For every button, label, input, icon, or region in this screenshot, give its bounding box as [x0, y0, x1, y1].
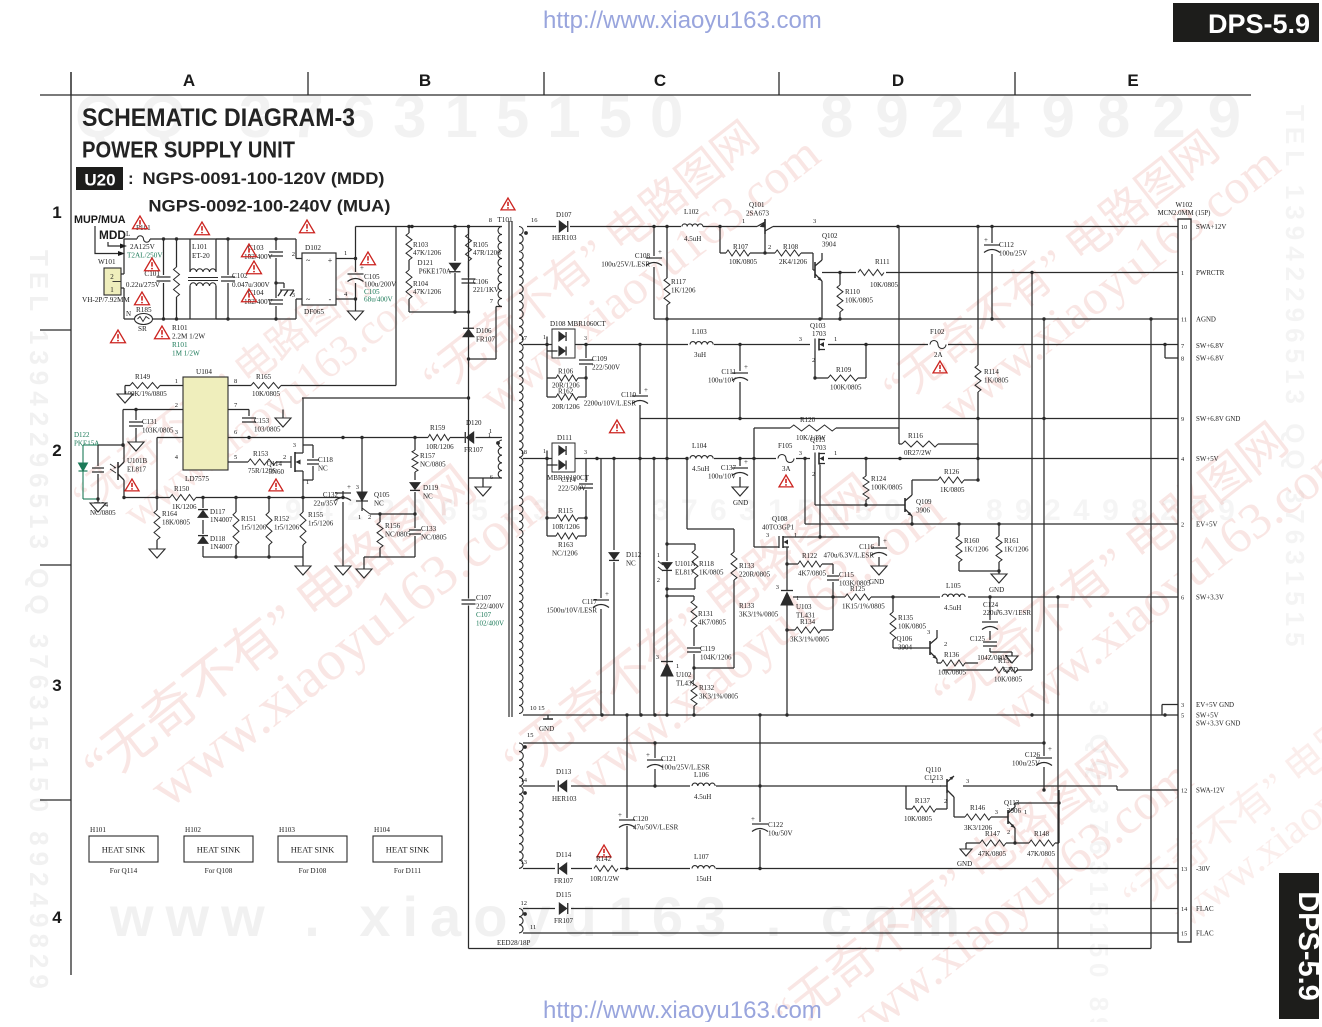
- svg-text:9: 9: [1181, 416, 1184, 423]
- svg-text:SW+6.8V: SW+6.8V: [1196, 343, 1224, 350]
- svg-text:R165: R165: [256, 373, 272, 381]
- svg-text:R107: R107: [733, 243, 749, 251]
- svg-text:2: 2: [175, 402, 178, 409]
- resistor R132: [693, 668, 695, 680]
- svg-text:10R/1206: 10R/1206: [552, 523, 580, 531]
- diode D115: [555, 902, 571, 914]
- grid row ticks: [40, 329, 71, 331]
- wire Q110 out: [954, 776, 958, 780]
- svg-text:C119: C119: [700, 645, 715, 653]
- svg-text:10R/1/2W: 10R/1/2W: [590, 875, 620, 883]
- svg-text:+: +: [996, 607, 1000, 615]
- svg-text:AGND: AGND: [1196, 317, 1216, 324]
- resistor R118: [667, 543, 695, 545]
- svg-text:FR107: FR107: [476, 336, 496, 344]
- svg-text:C109: C109: [592, 355, 608, 363]
- svg-text:FR107: FR107: [464, 446, 484, 454]
- svg-text:For D111: For D111: [394, 867, 422, 875]
- svg-text:13: 13: [1181, 866, 1187, 873]
- inductor L102: [681, 222, 703, 231]
- svg-text:TEL 13942296513 QQ 376315150 8: TEL 13942296513 QQ 376315150 89249829: [24, 250, 54, 995]
- wire Q114 drain row: [302, 397, 469, 399]
- svg-text:1K15/1%/0805: 1K15/1%/0805: [842, 603, 885, 611]
- fuse F101: [124, 238, 137, 240]
- svg-text:1: 1: [543, 449, 546, 455]
- wire Q106 collector: [936, 630, 938, 638]
- svg-text:L: L: [126, 230, 130, 238]
- resistor R142: [592, 863, 620, 873]
- svg-text:1: 1: [834, 450, 837, 457]
- wire PWRCTR rail: [822, 272, 1178, 274]
- wire Q108 drain row: [789, 536, 879, 538]
- resistor R152: [268, 498, 270, 513]
- wire Q110 collector row: [954, 775, 960, 777]
- svg-text:3: 3: [175, 429, 178, 436]
- svg-text:EED28/18P: EED28/18P: [497, 939, 531, 947]
- svg-text:5: 5: [234, 454, 237, 461]
- svg-text:EL817: EL817: [675, 569, 695, 577]
- svg-text:H104: H104: [374, 826, 390, 834]
- svg-text:C111: C111: [721, 368, 736, 376]
- svg-text:1: 1: [676, 663, 679, 670]
- svg-text:MUP/MUA: MUP/MUA: [74, 214, 126, 226]
- capacitor C102: [227, 239, 229, 275]
- capacitor C124: [989, 597, 991, 620]
- svg-text:R101: R101: [172, 341, 188, 349]
- svg-text:1: 1: [742, 218, 745, 225]
- wire U102 col: [666, 589, 668, 596]
- wire R165 riser: [395, 227, 397, 386]
- resistor R116: [899, 443, 902, 445]
- svg-text:W102: W102: [1175, 201, 1193, 209]
- svg-text:Q106: Q106: [896, 635, 912, 643]
- svg-text:http://www.xiaoyu163.com: http://www.xiaoyu163.com: [543, 7, 822, 34]
- svg-text:3906: 3906: [1007, 807, 1022, 815]
- wire bridge pin3: [295, 299, 297, 319]
- resistor R103: [408, 227, 410, 234]
- svg-text:EL817: EL817: [127, 466, 147, 474]
- wire x1058 col2: [1057, 597, 1059, 949]
- svg-text:4.5uH: 4.5uH: [694, 793, 711, 801]
- svg-text:3: 3: [995, 809, 998, 816]
- svg-text:MDD: MDD: [99, 228, 126, 242]
- wire Q115 gate down: [814, 465, 816, 506]
- svg-text:14: 14: [1181, 906, 1188, 913]
- svg-text:104Z/0805: 104Z/0805: [977, 654, 1008, 662]
- capacitor C103: [275, 239, 277, 250]
- svg-text:SW+5V: SW+5V: [1196, 713, 1219, 720]
- svg-text:D108 MBR1060CT: D108 MBR1060CT: [550, 320, 607, 328]
- svg-text:104K/1206: 104K/1206: [700, 654, 732, 662]
- svg-text:3906: 3906: [916, 507, 931, 515]
- svg-text:C131: C131: [142, 418, 158, 426]
- capacitor C118: [303, 452, 313, 454]
- wire pin7 gnd jog: [249, 409, 283, 411]
- svg-text:12: 12: [521, 900, 528, 907]
- capacitor C133: [414, 514, 416, 528]
- svg-text:R133: R133: [739, 602, 755, 610]
- svg-text:DPS-5.9: DPS-5.9: [1208, 9, 1310, 39]
- svg-text:E: E: [1127, 71, 1138, 90]
- wire R120 chain: [753, 428, 755, 459]
- capacitor C134: [97, 445, 99, 466]
- resistor R122: [787, 563, 798, 565]
- wire R150 rail: [98, 497, 183, 499]
- svg-text:2: 2: [944, 641, 947, 648]
- wire pin14 rail: [523, 785, 1117, 787]
- svg-text:NC: NC: [626, 560, 636, 568]
- capacitor C107: [460, 599, 477, 606]
- svg-text:R125: R125: [850, 585, 866, 593]
- svg-text:R104: R104: [413, 280, 429, 288]
- svg-text:C122: C122: [768, 821, 784, 829]
- svg-text:17: 17: [521, 335, 528, 342]
- warning below F102: [933, 361, 947, 373]
- svg-text:11: 11: [530, 924, 536, 931]
- svg-text:10K/0805: 10K/0805: [994, 676, 1023, 684]
- wire R138 row: [937, 669, 986, 671]
- wire pin6 rail: [228, 437, 470, 439]
- svg-text:SCHEMATIC DIAGRAM-3: SCHEMATIC DIAGRAM-3: [82, 104, 355, 132]
- svg-text:C117: C117: [582, 598, 597, 606]
- grid header line: [40, 94, 1251, 96]
- warning triangles: [133, 216, 148, 229]
- svg-text:R146: R146: [970, 804, 986, 812]
- svg-text:C133: C133: [421, 525, 437, 533]
- svg-text:8: 8: [1181, 356, 1184, 363]
- svg-text:R126: R126: [944, 468, 960, 476]
- svg-text:12: 12: [1181, 788, 1187, 795]
- svg-text:R120: R120: [800, 416, 816, 424]
- svg-text:PWRCTR: PWRCTR: [1196, 270, 1225, 277]
- capacitor C122: [752, 823, 768, 825]
- wire N rail after choke: [216, 318, 296, 320]
- svg-text:U101B: U101B: [127, 457, 148, 465]
- resistor R124: [865, 459, 867, 477]
- svg-text:R137: R137: [915, 797, 931, 805]
- svg-text:C132: C132: [323, 491, 339, 499]
- svg-text:222/500V: 222/500V: [558, 485, 586, 493]
- svg-text:R116: R116: [908, 432, 923, 440]
- diode D121: [454, 227, 456, 262]
- svg-text:R142: R142: [596, 855, 612, 863]
- svg-text:D118: D118: [210, 535, 226, 543]
- svg-text:HEAT SINK: HEAT SINK: [102, 845, 146, 855]
- resistor R134: [787, 629, 795, 631]
- svg-text:R162: R162: [558, 388, 574, 396]
- wire N rail: [153, 318, 229, 320]
- wire R117 col lower: [666, 319, 668, 459]
- svg-text:R122: R122: [802, 552, 818, 560]
- wire Q114 source: [302, 471, 304, 498]
- svg-text:3K3/1%/0805: 3K3/1%/0805: [699, 693, 739, 701]
- capacitor C101: [163, 239, 165, 275]
- capacitor C112: [991, 227, 993, 244]
- svg-text:1: 1: [344, 250, 347, 257]
- svg-text:DPS-5.9: DPS-5.9: [1292, 891, 1322, 1001]
- svg-text:W101: W101: [98, 258, 116, 266]
- svg-text:1r5/1206: 1r5/1206: [274, 524, 300, 532]
- svg-text:10K/0805: 10K/0805: [870, 281, 899, 289]
- wire x627 col: [626, 715, 628, 818]
- svg-text:3: 3: [766, 532, 769, 539]
- capacitor C125: [983, 641, 997, 643]
- svg-text:+: +: [328, 256, 333, 265]
- thyristor Q105: [361, 438, 363, 493]
- wire pin15 flac rail: [523, 932, 1178, 934]
- svg-text:R161: R161: [1004, 537, 1020, 545]
- transistor Q106: [925, 647, 930, 649]
- svg-text:Q114: Q114: [267, 460, 283, 468]
- svg-text:R101: R101: [172, 324, 188, 332]
- wire x760 col: [759, 715, 761, 822]
- phase dot 14: [523, 791, 527, 795]
- ground R147: [965, 843, 967, 849]
- wire C108 col lower: [653, 319, 655, 715]
- wire x978 col: [977, 227, 979, 366]
- wire R107 left: [719, 227, 721, 254]
- svg-text:R159: R159: [430, 424, 446, 432]
- svg-text:10K/0805: 10K/0805: [845, 297, 874, 305]
- svg-text:FR107: FR107: [554, 917, 574, 925]
- svg-text:NGPS-0092-100-240V (MUA): NGPS-0092-100-240V (MUA): [148, 197, 390, 216]
- warning U101B: [125, 479, 139, 491]
- wire Q109 collector to R126: [911, 480, 913, 495]
- wire W101 pin2 to L line: [121, 273, 124, 275]
- svg-text:2SA673: 2SA673: [746, 210, 769, 218]
- svg-text:2: 2: [292, 251, 295, 258]
- transformer T101 secondary winding 17-18: [519, 344, 523, 458]
- wire Q113 collector: [1014, 803, 1016, 807]
- svg-text:NGPS-0091-100-120V (MDD): NGPS-0091-100-120V (MDD): [143, 169, 385, 188]
- inductor L106: [690, 781, 716, 791]
- svg-text:R131: R131: [698, 610, 714, 618]
- svg-text:FLAC: FLAC: [1196, 931, 1214, 938]
- svg-text:100u/10V: 100u/10V: [708, 473, 736, 481]
- svg-text:D106: D106: [476, 327, 492, 335]
- svg-text:R109: R109: [836, 366, 852, 374]
- capacitor C115: [832, 564, 834, 574]
- svg-text:+: +: [347, 483, 351, 491]
- svg-text:10K/0805: 10K/0805: [252, 390, 281, 398]
- svg-text:14: 14: [521, 777, 528, 784]
- svg-text:3A: 3A: [782, 465, 791, 473]
- wire L rail: [164, 238, 229, 240]
- wire Q105 gnd: [361, 510, 363, 512]
- wire EV5V rail: [804, 459, 806, 525]
- heat sink H104: [373, 836, 442, 862]
- svg-text:220R/0805: 220R/0805: [739, 571, 771, 579]
- svg-text:D121: D121: [417, 259, 433, 267]
- svg-text:+: +: [646, 751, 650, 759]
- svg-text:GND: GND: [1003, 666, 1018, 674]
- diode D111 package: [552, 443, 575, 472]
- svg-text:3: 3: [927, 629, 930, 636]
- capacitor C108: [653, 227, 655, 257]
- svg-text:1: 1: [657, 552, 660, 559]
- svg-text:4: 4: [52, 908, 62, 927]
- wire U102 anode: [666, 676, 668, 715]
- wire pin14 flac rail: [523, 908, 1178, 910]
- svg-text:R155: R155: [308, 511, 324, 519]
- svg-text:2: 2: [368, 514, 371, 521]
- svg-text:3: 3: [656, 654, 659, 661]
- capacitor C137: [739, 459, 741, 467]
- resistor R138: [960, 669, 988, 671]
- svg-text:10R/1206: 10R/1206: [426, 443, 454, 451]
- svg-text:NC: NC: [318, 465, 328, 473]
- wire Q102 collector: [821, 253, 823, 260]
- svg-text:40TO3GP1: 40TO3GP1: [762, 524, 795, 532]
- wire rail SW6.8V: [523, 344, 1178, 346]
- resistor R151: [235, 498, 237, 513]
- ground cluster: [363, 557, 365, 569]
- svg-text:4K7/0805: 4K7/0805: [798, 570, 827, 578]
- svg-text:H102: H102: [185, 826, 201, 834]
- resistor R108: [775, 250, 801, 256]
- resistor R137: [905, 786, 907, 809]
- resistor R107: [726, 250, 750, 256]
- svg-text:1r5/1206: 1r5/1206: [241, 524, 267, 532]
- transistor Q110: [938, 785, 947, 787]
- svg-text:1K/1206: 1K/1206: [964, 546, 989, 554]
- transistor Q113: [1005, 816, 1008, 818]
- svg-text:NC/0805: NC/0805: [385, 531, 411, 539]
- svg-text:3uH: 3uH: [694, 351, 706, 359]
- resistor R160: [958, 524, 960, 536]
- svg-text:DF065: DF065: [304, 308, 324, 316]
- svg-text:68u/400V: 68u/400V: [364, 296, 394, 304]
- resistor R135: [892, 597, 894, 612]
- svg-text:2A: 2A: [934, 351, 943, 359]
- svg-text:Q101: Q101: [749, 201, 765, 209]
- svg-text:10 15: 10 15: [530, 705, 545, 712]
- svg-text:C: C: [654, 71, 666, 90]
- svg-text:103K/0805: 103K/0805: [142, 427, 174, 435]
- svg-text:2A125V: 2A125V: [130, 243, 156, 251]
- svg-text:MCN2.0MM (15P): MCN2.0MM (15P): [1158, 210, 1211, 217]
- svg-text:FLAC: FLAC: [1196, 906, 1214, 913]
- svg-text:HER103: HER103: [552, 234, 577, 242]
- resistor R147: [966, 842, 980, 844]
- svg-text:NC/0805: NC/0805: [421, 534, 447, 542]
- svg-text:U103: U103: [796, 603, 812, 611]
- wire R156 C133 bottom: [364, 556, 415, 558]
- wire left box edge: [468, 227, 470, 949]
- svg-text:0.22u/275V: 0.22u/275V: [126, 281, 161, 289]
- svg-text:3: 3: [292, 292, 295, 299]
- svg-text:15: 15: [527, 732, 534, 739]
- resistor R125: [833, 596, 845, 598]
- svg-text:-: -: [329, 295, 332, 304]
- svg-text:HEAT SINK: HEAT SINK: [386, 845, 430, 855]
- svg-text:221/1KV: 221/1KV: [473, 286, 499, 294]
- diode D108 package: [552, 329, 575, 358]
- wire pin13 rail: [523, 868, 1178, 870]
- ground sym at rail: [547, 715, 549, 719]
- svg-text:VH-2P/7.92MM: VH-2P/7.92MM: [82, 296, 130, 304]
- svg-text:For Q108: For Q108: [205, 867, 233, 875]
- mosfet Q108: [781, 532, 783, 542]
- heat sink H101: [89, 836, 158, 862]
- transformer T101 lower secondary 14-13: [519, 786, 523, 868]
- svg-text:3: 3: [966, 778, 969, 785]
- svg-text:4.5uH: 4.5uH: [684, 235, 701, 243]
- arrow MDD to fuse rating: [108, 242, 124, 246]
- svg-text:R151: R151: [241, 515, 257, 523]
- svg-text:3: 3: [799, 336, 802, 343]
- wire Q110 emitter: [953, 797, 955, 817]
- transformer T101 core: [508, 221, 510, 717]
- svg-text:3: 3: [1181, 702, 1184, 709]
- svg-text:3K3/1%/0805: 3K3/1%/0805: [790, 636, 830, 644]
- wire U103 anode: [786, 605, 788, 715]
- svg-text:D114: D114: [556, 851, 572, 859]
- svg-text:L101: L101: [192, 243, 208, 251]
- wire 3.3V rail: [893, 596, 1178, 598]
- svg-text:3: 3: [813, 218, 816, 225]
- capacitor C111: [739, 345, 741, 372]
- svg-text:R118: R118: [699, 560, 714, 568]
- svg-text:R147: R147: [985, 830, 1001, 838]
- resistor R163: [546, 518, 548, 536]
- svg-text:EV+5V GND: EV+5V GND: [1196, 702, 1234, 709]
- wire bridge pin1 to C105: [336, 258, 356, 260]
- transistor Q101: [757, 221, 773, 232]
- svg-text:B: B: [419, 71, 431, 90]
- svg-text:20R/1206: 20R/1206: [552, 403, 580, 411]
- svg-text:47R/1206: 47R/1206: [473, 249, 501, 257]
- capacitor C109: [585, 345, 587, 359]
- wire rail SW6.8VGND: [640, 418, 1178, 420]
- svg-text:L107: L107: [694, 853, 709, 861]
- phase dot 12: [523, 912, 527, 916]
- svg-text:Q103: Q103: [810, 322, 826, 330]
- svg-text:+: +: [883, 537, 887, 545]
- svg-text:C112: C112: [999, 241, 1014, 249]
- svg-text:4K7/0805: 4K7/0805: [698, 619, 727, 627]
- svg-text:R108: R108: [783, 243, 799, 251]
- svg-text:R185: R185: [136, 306, 152, 314]
- svg-text:1703: 1703: [812, 330, 827, 338]
- svg-text:C108: C108: [635, 252, 651, 260]
- svg-text:R103: R103: [413, 241, 429, 249]
- svg-text:NC/0805: NC/0805: [420, 461, 446, 469]
- wire Q115 source down: [819, 465, 821, 538]
- svg-text:H103: H103: [279, 826, 295, 834]
- wire rail SWA12V: [527, 226, 1178, 228]
- wire x1058 col: [1057, 597, 1059, 933]
- diode D119: [410, 483, 420, 490]
- mosfet Q114: [290, 456, 292, 468]
- svg-text:3: 3: [356, 484, 359, 491]
- svg-text:1: 1: [489, 428, 492, 435]
- transformer T101 primary upper winding: [498, 227, 502, 307]
- resistor R104: [408, 260, 410, 270]
- svg-text:1K/1206: 1K/1206: [1004, 546, 1029, 554]
- wire x1151 col: [1150, 319, 1152, 949]
- svg-text:10K/1/8W: 10K/1/8W: [796, 434, 826, 442]
- wire AGND rail: [654, 318, 1178, 320]
- wire pin8 jog: [1164, 345, 1166, 359]
- svg-text:R152: R152: [274, 515, 290, 523]
- svg-text:SWA+12V: SWA+12V: [1196, 224, 1226, 231]
- svg-text:GND: GND: [869, 578, 884, 586]
- svg-text:7: 7: [1181, 343, 1184, 350]
- diode D106: [463, 329, 474, 336]
- resistor R148: [1015, 842, 1029, 844]
- svg-text:D117: D117: [210, 508, 226, 516]
